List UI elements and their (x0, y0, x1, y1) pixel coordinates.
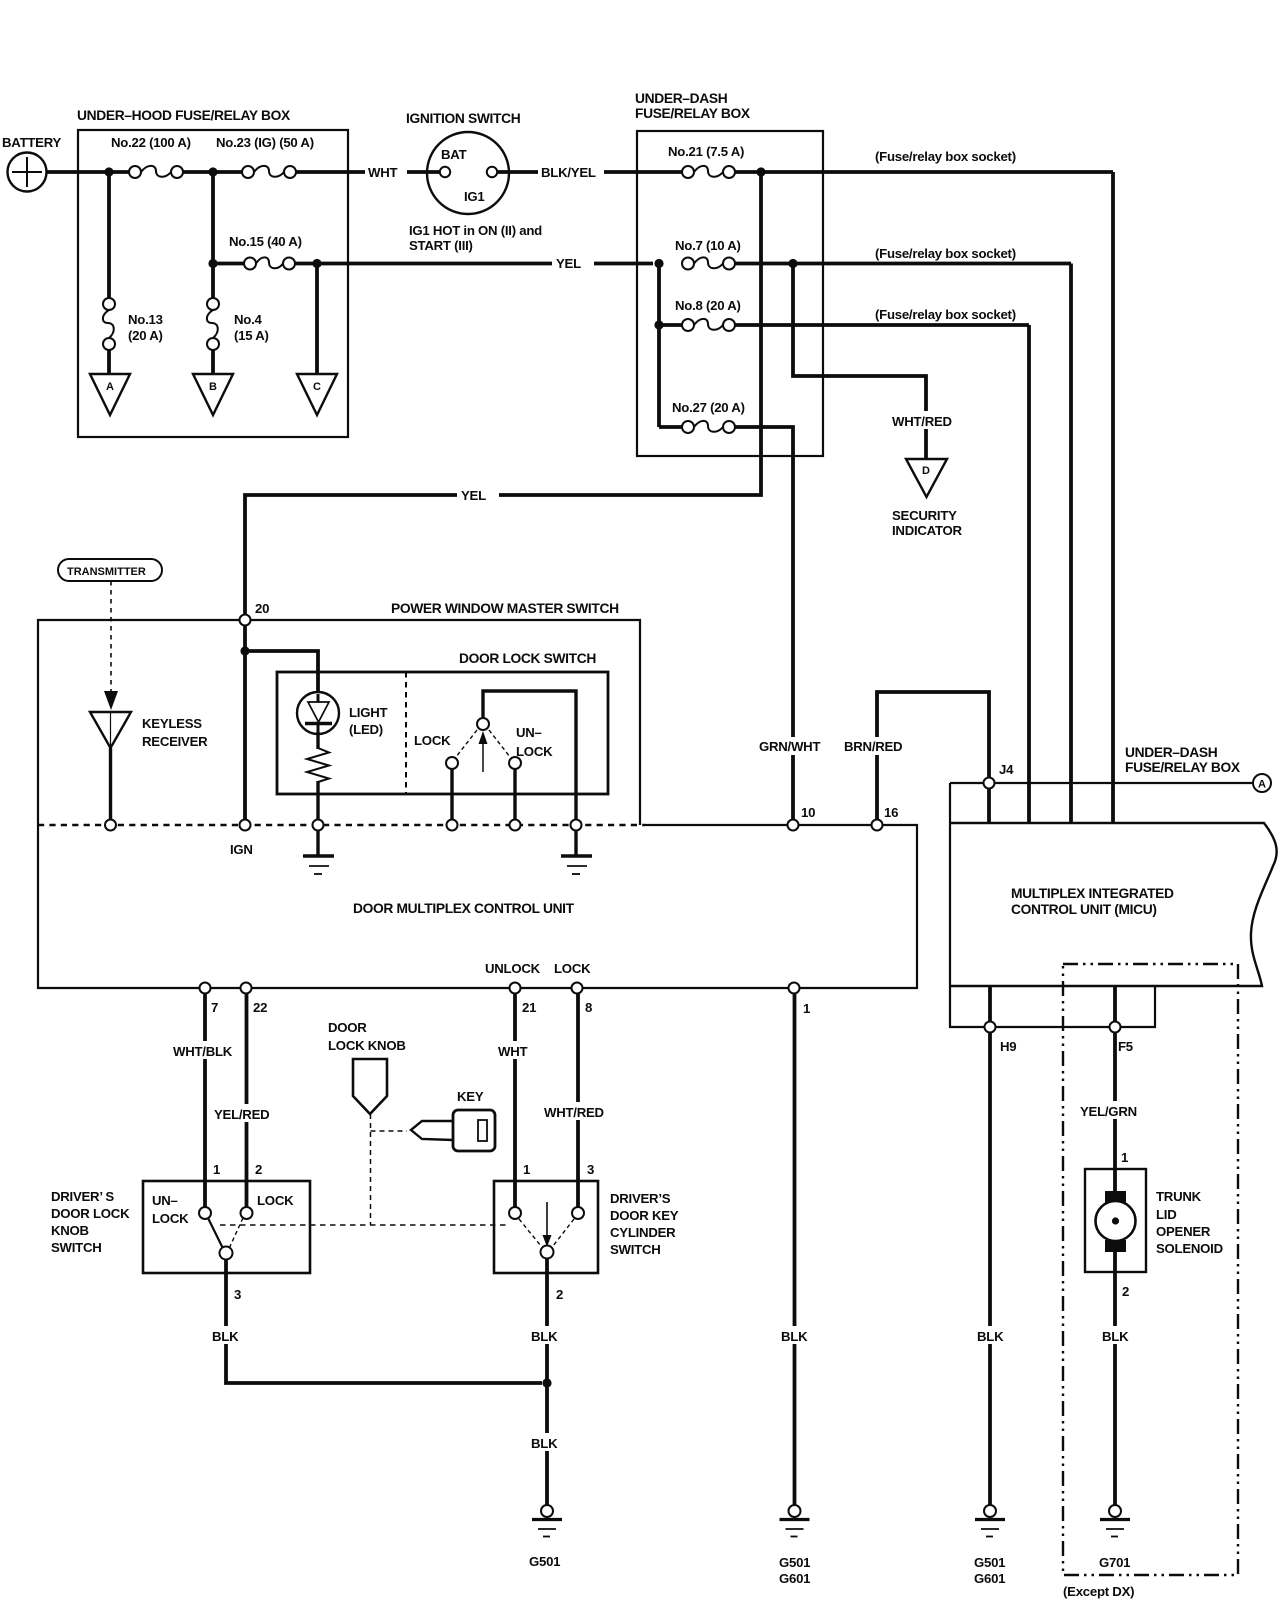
svg-text:3: 3 (234, 1287, 241, 1302)
wire socket3 down to MICU (1027, 325, 1031, 823)
fuse No.23 (IG) (50 A) (216, 135, 314, 178)
pin 1 (789, 983, 811, 1017)
svg-text:1: 1 (803, 1001, 810, 1016)
wire No.7 output to socket (735, 262, 1071, 266)
svg-text:A: A (106, 381, 114, 393)
svg-text:(Fuse/relay box socket): (Fuse/relay box socket) (875, 149, 1016, 164)
svg-text:UN–: UN– (516, 725, 542, 740)
svg-text:YEL/GRN: YEL/GRN (1080, 1104, 1137, 1119)
rocker arrow (479, 731, 488, 772)
dashed rf link transmitter to receiver (110, 581, 112, 692)
wire knob switch pin3 BLK (208, 1260, 542, 1384)
svg-text:No.22 (100 A): No.22 (100 A) (111, 135, 191, 150)
svg-text:KEY: KEY (457, 1089, 484, 1104)
svg-text:No.7 (10 A): No.7 (10 A) (675, 238, 741, 253)
pin switch ground (571, 820, 582, 831)
node No.7 left junction (654, 259, 663, 268)
node No.21 junction (756, 167, 765, 176)
wire fuse22 to fuse23 (183, 170, 242, 174)
svg-text:CONTROL UNIT (MICU): CONTROL UNIT (MICU) (1011, 902, 1157, 917)
svg-text:C: C (313, 381, 321, 393)
svg-text:(20 A): (20 A) (128, 328, 163, 343)
svg-text:1: 1 (213, 1162, 220, 1177)
svg-text:G601: G601 (974, 1571, 1005, 1586)
svg-text:D: D (922, 465, 930, 477)
svg-text:DOOR: DOOR (328, 1020, 367, 1035)
svg-text:LOCK: LOCK (554, 961, 591, 976)
svg-text:(15 A): (15 A) (234, 328, 269, 343)
wire No.7 branch to security indicator, WHT/RED (793, 264, 958, 460)
svg-text:SWITCH: SWITCH (610, 1242, 661, 1257)
svg-text:(Fuse/relay box socket): (Fuse/relay box socket) (875, 246, 1016, 261)
pin IGN (230, 820, 253, 858)
node BLK join (542, 1378, 551, 1387)
ground G701 (solenoid) (1099, 1505, 1130, 1570)
svg-text:SECURITY: SECURITY (892, 508, 957, 523)
dashed mechanical link between switches (220, 1224, 506, 1226)
svg-text:YEL/RED: YEL/RED (214, 1107, 269, 1122)
svg-text:No.21 (7.5 A): No.21 (7.5 A) (668, 144, 744, 159)
door multiplex control unit box (38, 825, 917, 988)
svg-text:2: 2 (1122, 1284, 1129, 1299)
svg-text:G501: G501 (529, 1554, 560, 1569)
svg-text:G501: G501 (779, 1555, 810, 1570)
svg-text:UNLOCK: UNLOCK (485, 961, 541, 976)
pin unlock (510, 820, 521, 831)
svg-text:FUSE/RELAY BOX: FUSE/RELAY BOX (1125, 760, 1241, 775)
svg-text:BRN/RED: BRN/RED (844, 739, 902, 754)
wire socket1 down to MICU (1111, 172, 1115, 823)
security indicator connector D (892, 459, 963, 538)
svg-text:7: 7 (211, 1000, 218, 1015)
wire No.7 to No.27 left rail (657, 264, 661, 428)
resistor R1 (307, 748, 329, 782)
dash-dot except-DX boundary (1063, 964, 1238, 1599)
transmitter (58, 559, 162, 581)
under-dash box (lower) outline (950, 783, 1155, 1027)
svg-text:POWER WINDOW MASTER SWITCH: POWER WINDOW MASTER SWITCH (391, 601, 619, 616)
pin J4 (984, 762, 1015, 789)
pin H9 (985, 986, 1017, 1054)
fuse No.27 (20 A) (659, 400, 745, 433)
svg-text:(Fuse/relay box socket): (Fuse/relay box socket) (875, 307, 1016, 322)
svg-text:LOCK KNOB: LOCK KNOB (328, 1038, 406, 1053)
svg-text:BLK: BLK (531, 1329, 558, 1344)
svg-text:J4: J4 (999, 762, 1014, 777)
svg-text:DOOR MULTIPLEX CONTROL UNIT: DOOR MULTIPLEX CONTROL UNIT (353, 901, 575, 916)
svg-text:WHT: WHT (368, 165, 397, 180)
svg-text:BLK: BLK (531, 1436, 558, 1451)
ground LED (303, 831, 334, 875)
svg-text:UNDER–DASH: UNDER–DASH (635, 91, 728, 106)
wire ignition to under-dash box, BLK/YEL (497, 163, 682, 180)
wire LED to resistor (316, 732, 319, 749)
svg-text:LOCK: LOCK (257, 1193, 294, 1208)
knob switch contacts and arm (152, 1193, 294, 1260)
fuse No.21 (7.5 A) (668, 144, 744, 178)
svg-text:10: 10 (801, 805, 815, 820)
fuse No.15 (40 A) (213, 234, 302, 270)
dashed mechanical link knob (371, 1114, 408, 1225)
key cylinder contacts and actuator (509, 1202, 584, 1259)
pin 7 (200, 983, 219, 1016)
svg-text:No.13: No.13 (128, 312, 163, 327)
wire receiver to control unit (109, 748, 112, 820)
wire No.21 output to socket (735, 170, 1113, 174)
wire pin1 BLK to ground (777, 994, 815, 1506)
door lock switch box (277, 651, 608, 794)
svg-text:No.27 (20 A): No.27 (20 A) (672, 400, 745, 415)
svg-text:20: 20 (255, 601, 269, 616)
svg-text:8: 8 (585, 1000, 592, 1015)
svg-text:TRANSMITTER: TRANSMITTER (67, 566, 146, 578)
svg-text:H9: H9 (1000, 1039, 1016, 1054)
wire unlock contact to pin (513, 769, 516, 820)
keyless receiver antenna (90, 712, 208, 749)
svg-text:WHT/RED: WHT/RED (892, 414, 952, 429)
under-dash fuse/relay box (lower) label (1125, 745, 1241, 775)
LED lamp, LIGHT (LED) (297, 692, 388, 737)
wire H9 BLK to ground (973, 1033, 1011, 1506)
svg-text:KNOB: KNOB (51, 1223, 89, 1238)
wire box top edge to connector A (950, 782, 1253, 784)
ignition switch SW1 (406, 111, 521, 214)
node LED branch junction (240, 646, 249, 655)
connector A (90, 374, 130, 415)
wire pin20 to IGN terminal (243, 626, 247, 820)
svg-text:3: 3 (587, 1162, 594, 1177)
wire bus down to No.15 row (211, 172, 215, 264)
svg-text:FUSE/RELAY BOX: FUSE/RELAY BOX (635, 106, 751, 121)
node junction to connector C (312, 259, 321, 268)
svg-text:BLK: BLK (781, 1329, 808, 1344)
svg-text:YEL: YEL (556, 256, 581, 271)
svg-text:WHT: WHT (498, 1044, 527, 1059)
svg-text:DOOR KEY: DOOR KEY (610, 1208, 679, 1223)
wire pin21 WHT to key cyl contact 1 (495, 994, 537, 1208)
svg-text:2: 2 (255, 1162, 262, 1177)
under-hood fuse/relay box (77, 108, 348, 437)
svg-text:BATTERY: BATTERY (2, 135, 62, 150)
under-dash fuse/relay box (upper) (635, 91, 823, 456)
fuse No.4 (15 A) (207, 264, 269, 351)
svg-text:KEYLESS: KEYLESS (142, 716, 202, 731)
svg-text:BLK/YEL: BLK/YEL (541, 165, 596, 180)
svg-text:BLK: BLK (212, 1329, 239, 1344)
wire F5 YEL/GRN to solenoid pin 1 (1077, 1033, 1143, 1193)
svg-text:F5: F5 (1118, 1039, 1133, 1054)
svg-text:21: 21 (522, 1000, 536, 1015)
wire No.15 junction to connector C (315, 264, 319, 377)
door lock knob (328, 1020, 406, 1114)
ground G501 (switches) (529, 1505, 562, 1569)
pin 22 (241, 983, 268, 1016)
wire fuse13 to connector A (107, 350, 111, 376)
node bus junction 2 (208, 167, 217, 176)
svg-text:B: B (209, 381, 217, 393)
trunk lid opener solenoid (1085, 1169, 1223, 1272)
svg-text:LOCK: LOCK (516, 744, 553, 759)
label IG1 HOT note (409, 223, 542, 253)
ground G501/G601 (MICU) (974, 1505, 1005, 1586)
fuse No.7 (10 A) (675, 238, 741, 270)
contact LOCK (414, 733, 458, 769)
fuse No.13 (20 A) (103, 172, 163, 350)
fuse No.8 (20 A) (659, 298, 741, 331)
connector A circle (1253, 774, 1271, 792)
pin keyless receiver (105, 820, 116, 831)
multiplex integrated control unit (MICU) box (950, 823, 1277, 986)
node No.15 row junction (208, 259, 217, 268)
svg-text:G701: G701 (1099, 1555, 1130, 1570)
arrowhead rf link (104, 691, 118, 710)
svg-text:1: 1 (1121, 1150, 1128, 1165)
node battery bus junction 1 (104, 167, 113, 176)
contact UN-LOCK (509, 725, 553, 769)
pin LED ground (313, 820, 324, 831)
wire battery to fuse No.22 (47, 170, 130, 174)
driver's door lock knob switch box (51, 1181, 310, 1273)
connector C (297, 374, 337, 415)
svg-text:YEL: YEL (461, 488, 486, 503)
key (411, 1089, 495, 1151)
svg-text:1: 1 (523, 1162, 530, 1177)
svg-text:(Except DX): (Except DX) (1063, 1584, 1134, 1599)
svg-text:IGN: IGN (230, 842, 253, 857)
driver's door key cylinder switch box (494, 1181, 679, 1273)
svg-text:IG1 HOT in ON (II) and: IG1 HOT in ON (II) and (409, 223, 542, 238)
pin lock (447, 820, 458, 831)
svg-text:No.4: No.4 (234, 312, 262, 327)
svg-text:No.23 (IG) (50 A): No.23 (IG) (50 A) (216, 135, 314, 150)
svg-text:BAT: BAT (441, 147, 467, 162)
svg-text:LID: LID (1156, 1207, 1177, 1222)
svg-text:LOCK: LOCK (414, 733, 451, 748)
svg-text:22: 22 (253, 1000, 267, 1015)
svg-text:G501: G501 (974, 1555, 1005, 1570)
svg-text:(LED): (LED) (349, 722, 383, 737)
svg-text:BLK: BLK (977, 1329, 1004, 1344)
svg-text:No.8 (20 A): No.8 (20 A) (675, 298, 741, 313)
wire key cyl pin2 BLK to ground (527, 1259, 565, 1506)
svg-text:MULTIPLEX INTEGRATED: MULTIPLEX INTEGRATED (1011, 886, 1174, 901)
wire No.15 to under-dash box, YEL (295, 254, 653, 271)
wire fuse4 to connector B (211, 350, 215, 376)
svg-text:WHT/BLK: WHT/BLK (173, 1044, 233, 1059)
svg-text:RECEIVER: RECEIVER (142, 734, 208, 749)
ground switch (561, 831, 592, 875)
svg-text:No.15 (40 A): No.15 (40 A) (229, 234, 302, 249)
connector B (193, 374, 233, 415)
svg-text:G601: G601 (779, 1571, 810, 1586)
svg-text:SWITCH: SWITCH (51, 1240, 102, 1255)
pin 20 (240, 615, 251, 626)
power window master switch box (38, 601, 645, 825)
svg-text:IG1: IG1 (464, 189, 485, 204)
pin 16 (872, 805, 899, 831)
pin 21 (510, 983, 537, 1016)
lock/unlock rocker switch common (477, 691, 576, 820)
dashed rocker throws (456, 730, 510, 757)
wire pin8 WHT/RED to key cyl contact 3 (540, 994, 610, 1208)
wire pin7 WHT/BLK to unlock contact (170, 994, 238, 1208)
svg-text:2: 2 (556, 1287, 563, 1302)
wire solenoid pin 2 BLK to ground (1098, 1250, 1136, 1505)
wire No.8 output to socket (735, 323, 1029, 327)
wire lock contact to pin (450, 769, 453, 820)
svg-text:GRN/WHT: GRN/WHT (759, 739, 820, 754)
wire fuse23 to ignition switch, WHT (296, 163, 440, 180)
svg-text:16: 16 (884, 805, 898, 820)
wire YEL from No.21 junction down to master switch pin 20 (245, 172, 761, 615)
node No.7 right junction (788, 259, 797, 268)
svg-text:DOOR LOCK SWITCH: DOOR LOCK SWITCH (459, 651, 596, 666)
svg-text:UNDER–HOOD FUSE/RELAY BOX: UNDER–HOOD FUSE/RELAY BOX (77, 108, 291, 123)
svg-text:START (III): START (III) (409, 238, 473, 253)
pin F5 (1110, 986, 1136, 1054)
svg-text:WHT/RED: WHT/RED (544, 1105, 604, 1120)
svg-text:DRIVER’S: DRIVER’S (610, 1191, 671, 1206)
svg-text:DRIVER’ S: DRIVER’ S (51, 1189, 114, 1204)
svg-text:UN–: UN– (152, 1193, 178, 1208)
svg-text:OPENER: OPENER (1156, 1224, 1211, 1239)
svg-text:INDICATOR: INDICATOR (892, 523, 963, 538)
svg-text:LIGHT: LIGHT (349, 705, 388, 720)
svg-text:CYLINDER: CYLINDER (610, 1225, 676, 1240)
wire BRN/RED pin16 to J4 (841, 692, 989, 823)
svg-text:SOLENOID: SOLENOID (1156, 1241, 1223, 1256)
battery B1 (2, 135, 62, 192)
wire No.27 output GRN/WHT down to pin 10 (735, 427, 827, 820)
svg-text:TRUNK: TRUNK (1156, 1189, 1202, 1204)
ground G501/G601 (control unit) (779, 1505, 810, 1586)
svg-text:A: A (1258, 779, 1266, 791)
svg-text:UNDER–DASH: UNDER–DASH (1125, 745, 1218, 760)
svg-text:IGNITION SWITCH: IGNITION SWITCH (406, 111, 521, 126)
pin 10 (788, 805, 816, 831)
svg-text:BLK: BLK (1102, 1329, 1129, 1344)
svg-text:LOCK: LOCK (152, 1211, 189, 1226)
wire resistor to ground terminal (316, 781, 319, 820)
fuse No.22 (100 A) (111, 135, 191, 178)
svg-text:DOOR LOCK: DOOR LOCK (51, 1206, 130, 1221)
wire socket2 down to MICU (1069, 264, 1073, 824)
node No.8 left junction (654, 320, 663, 329)
wire pin22 YEL/RED to lock contact (211, 994, 275, 1208)
pin 8 (572, 983, 593, 1016)
wire branch to LED (245, 651, 318, 692)
